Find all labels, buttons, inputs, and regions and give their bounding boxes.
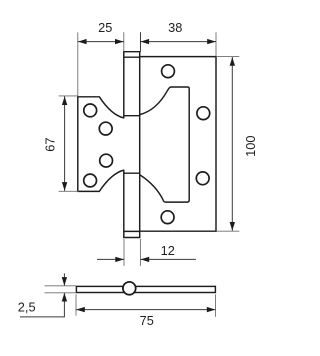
left leaf hole lower-middle (100, 154, 113, 167)
svg-text:2,5: 2,5 (18, 299, 36, 314)
dimension 100 label (243, 136, 258, 157)
dimension 12 line and arrows (97, 257, 196, 262)
dimension 38 label (168, 20, 182, 35)
dimension 75 extension lines (76, 294, 216, 316)
dimension 2,5 label (18, 299, 36, 314)
dimension 100 extension lines (217, 57, 240, 232)
svg-text:38: 38 (168, 20, 182, 35)
dimension 2,5 extension lines (45, 286, 77, 293)
right leaf hole bottom (161, 211, 174, 224)
dimension 38 extension lines (141, 32, 217, 56)
dimension 25 extension lines (78, 32, 124, 96)
svg-text:100: 100 (243, 136, 258, 157)
right leaf hole top (162, 65, 175, 78)
dimension 75 line and arrows (76, 307, 215, 312)
side view knuckle circle (123, 282, 136, 295)
right leaf hole upper-right (197, 107, 210, 120)
dimension 75 label (140, 313, 154, 328)
dimension 100 line and arrows (230, 57, 235, 231)
dimension 12 label (161, 243, 175, 258)
left leaf hole top-left (84, 104, 97, 117)
dimension 25 label (98, 20, 112, 35)
svg-text:67: 67 (42, 137, 57, 151)
dimension 2,5 arrows and leader (20, 273, 67, 317)
svg-text:25: 25 (98, 20, 112, 35)
left leaf outline (78, 97, 125, 192)
dimension 38 line and arrows (141, 39, 217, 44)
dimension 12 extension lines (124, 239, 140, 266)
right leaf outline (140, 57, 216, 232)
side view bar outline (76, 286, 215, 292)
right leaf hole lower-right (196, 172, 209, 185)
svg-text:75: 75 (140, 313, 154, 328)
dimension 67 line and arrows (62, 96, 67, 191)
dimension 25 line and arrows (78, 39, 124, 44)
right leaf cutout outline (140, 87, 189, 202)
dimension 67 label (42, 137, 57, 151)
knuckle barrel outline (123, 52, 140, 238)
left leaf hole bottom-left (84, 174, 97, 187)
svg-text:12: 12 (161, 243, 175, 258)
dimension 67 extension lines (59, 96, 79, 191)
left leaf hole upper-middle (99, 122, 112, 135)
